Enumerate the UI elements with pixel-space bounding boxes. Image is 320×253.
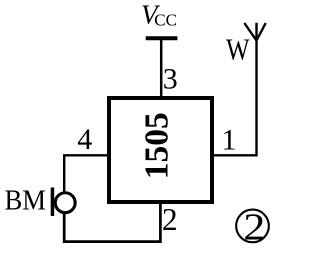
svg-text:3: 3 bbox=[163, 63, 178, 96]
svg-text:2: 2 bbox=[243, 207, 265, 249]
svg-text:1: 1 bbox=[222, 123, 237, 156]
svg-text:1505: 1505 bbox=[139, 112, 176, 179]
svg-text:2: 2 bbox=[162, 202, 178, 237]
svg-text:W: W bbox=[226, 32, 250, 67]
svg-text:4: 4 bbox=[77, 123, 92, 156]
svg-text:CC: CC bbox=[154, 11, 177, 30]
svg-text:BM: BM bbox=[5, 184, 47, 216]
